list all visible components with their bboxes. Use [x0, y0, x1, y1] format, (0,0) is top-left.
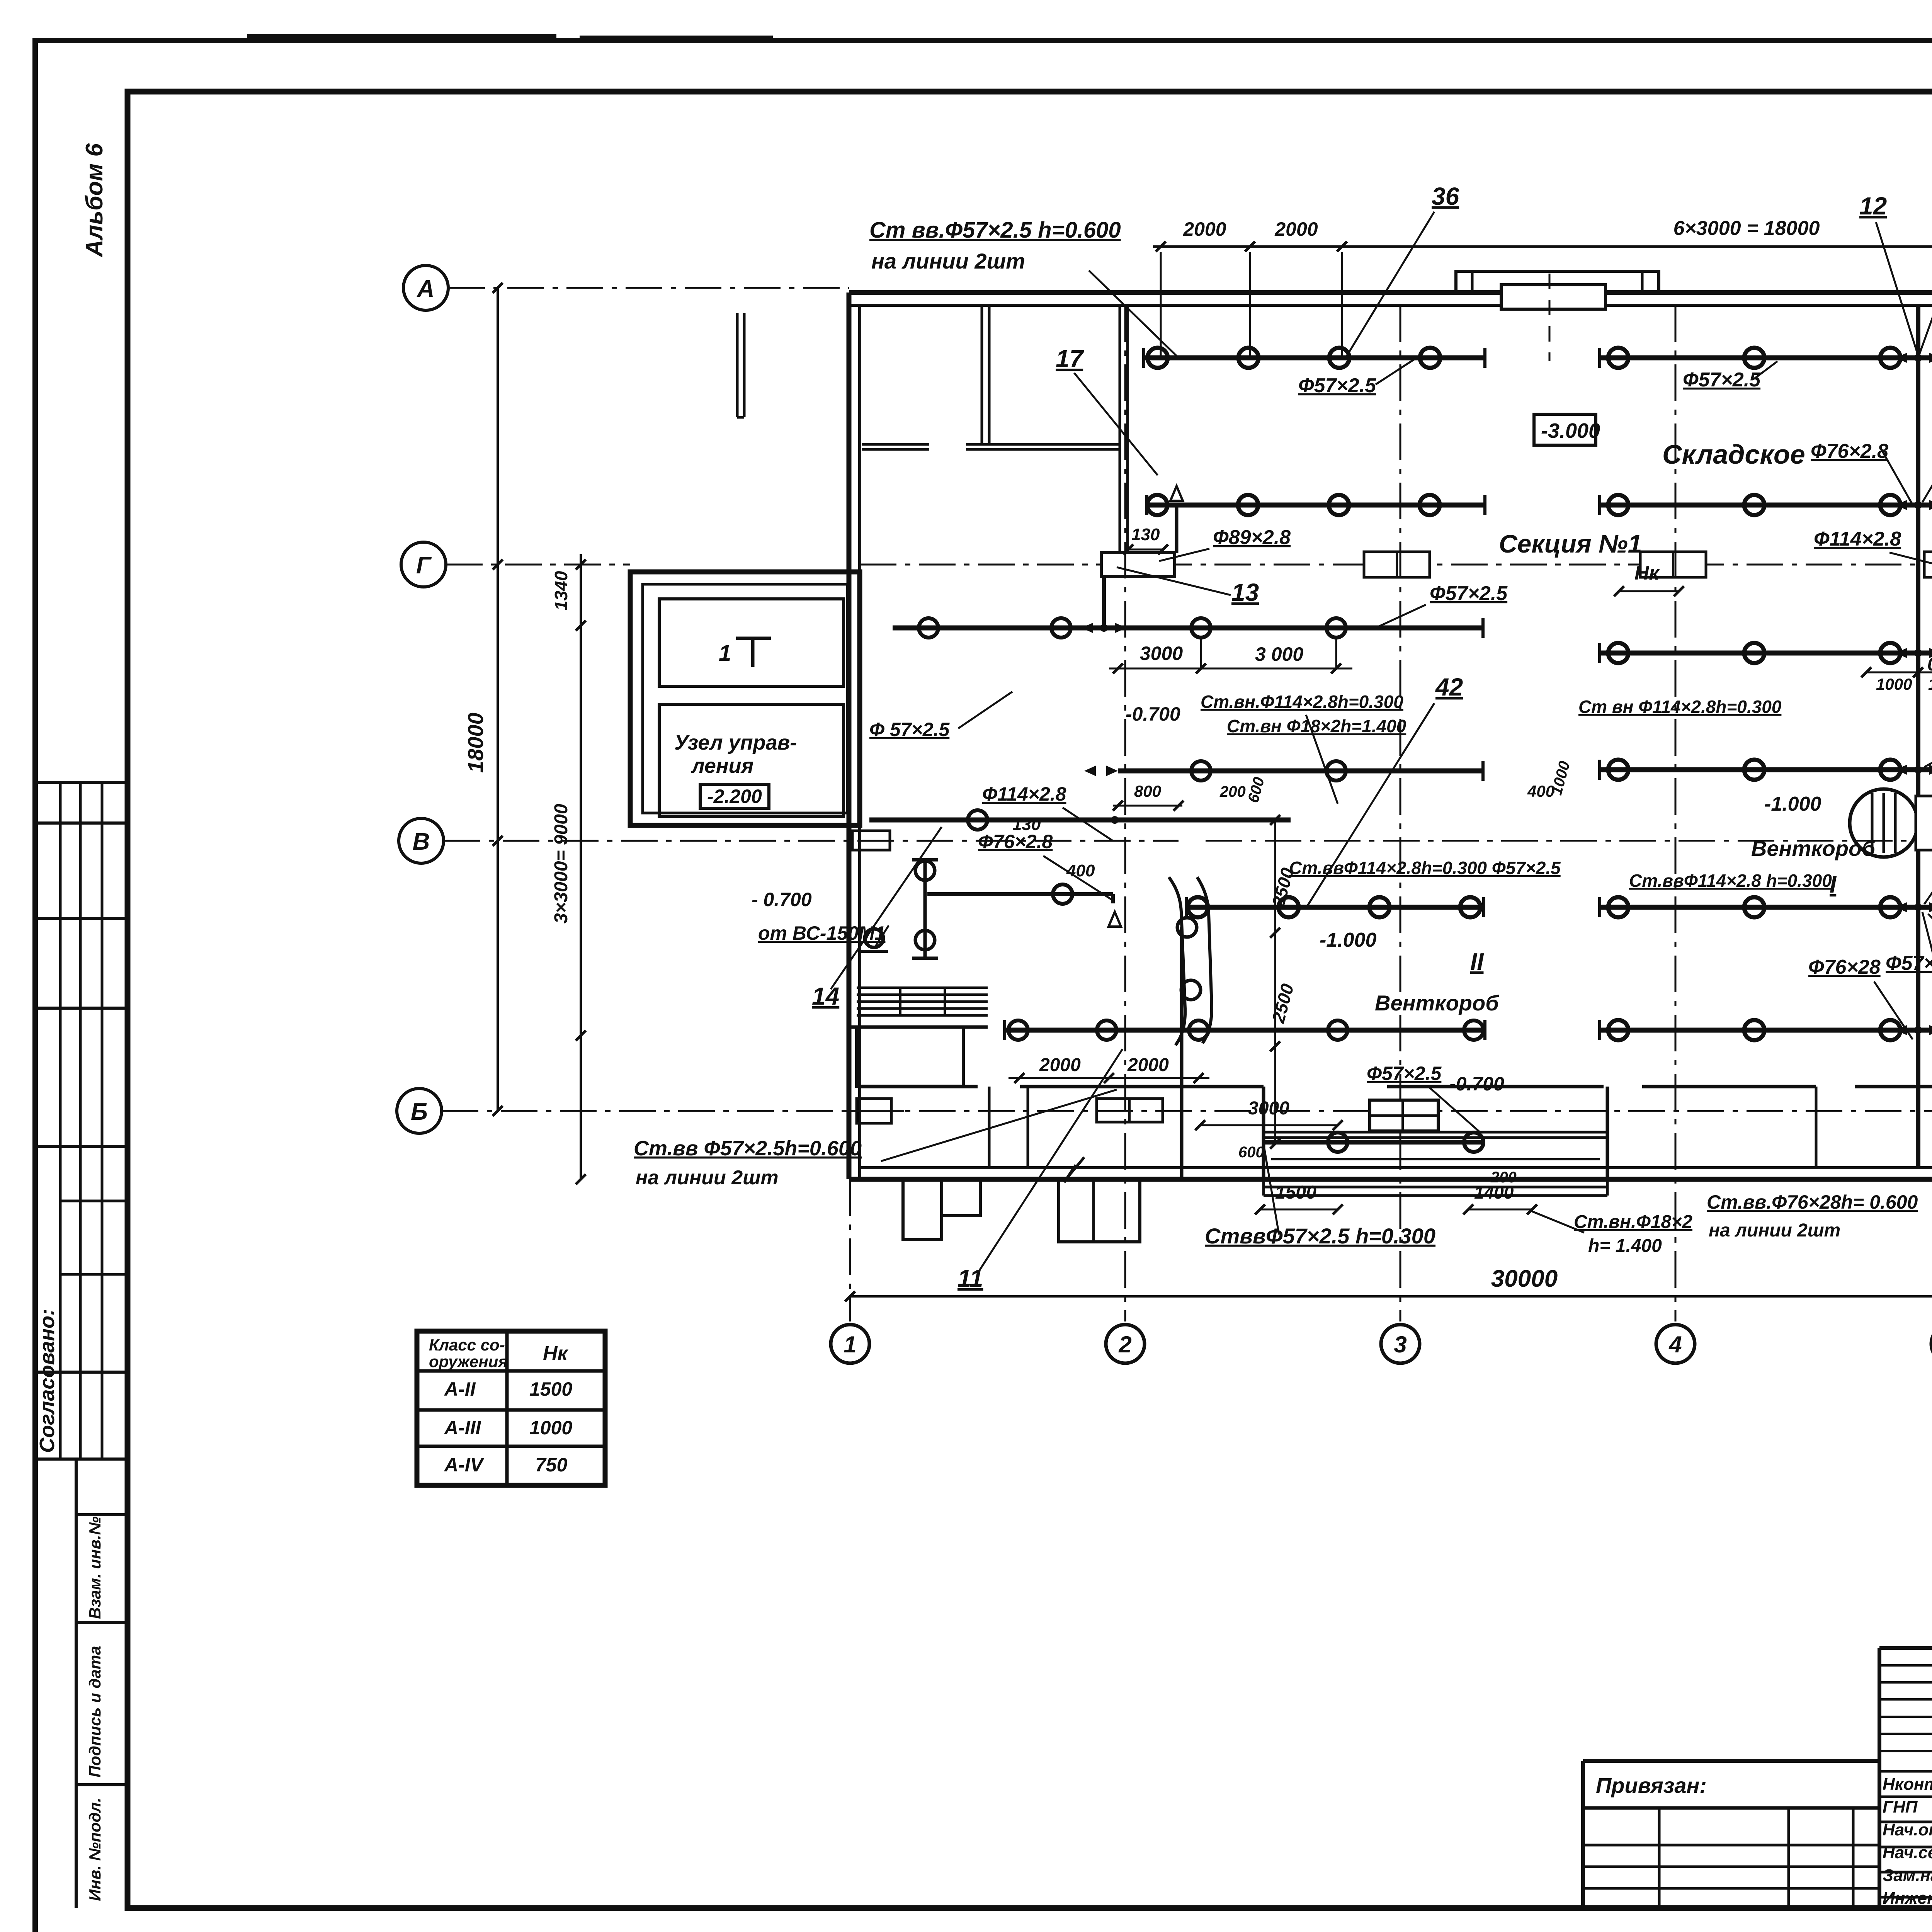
- svg-text:I: I: [1830, 871, 1837, 898]
- svg-text:200: 200: [1219, 783, 1246, 800]
- svg-text:6×3000 = 18000: 6×3000 = 18000: [1673, 217, 1820, 240]
- svg-text:-0.700: -0.700: [1126, 703, 1180, 725]
- svg-text:Ст.вв.Ф76×28h= 0.600: Ст.вв.Ф76×28h= 0.600: [1707, 1191, 1918, 1213]
- annex level mark -2.200: [700, 784, 769, 808]
- left riser pipe: [1102, 577, 1106, 628]
- ventkorob round symbol: [1850, 789, 1918, 857]
- svg-text:Ст.вн Ф18×2h=1.400: Ст.вн Ф18×2h=1.400: [1227, 716, 1406, 736]
- svg-text:ГНП: ГНП: [1883, 1798, 1918, 1816]
- exterior protrusion below wall center: [1059, 1179, 1140, 1242]
- svg-text:Ф57×2.5: Ф57×2.5: [1367, 1063, 1442, 1084]
- svg-text:Б: Б: [411, 1099, 428, 1125]
- top dimension line 2000/2000/6x3000: [1153, 245, 1932, 248]
- svg-text:Согласовано:: Согласовано:: [36, 1309, 59, 1453]
- svg-text:Ст вв.Ф57×2.5 h=0.600: Ст вв.Ф57×2.5 h=0.600: [869, 218, 1121, 243]
- axis A line: [448, 287, 849, 289]
- annex room rect 1: [659, 599, 844, 686]
- svg-text:13: 13: [1231, 578, 1259, 606]
- svg-text:3×3000= 9000: 3×3000= 9000: [551, 804, 571, 923]
- column circles 1-6: [831, 1325, 869, 1363]
- svg-text:Ст.ввФ114×2.8 h=0.300: Ст.ввФ114×2.8 h=0.300: [1629, 871, 1832, 891]
- svg-text:750: 750: [535, 1454, 568, 1476]
- svg-text:Ст.вн.Ф18×2: Ст.вн.Ф18×2: [1574, 1212, 1692, 1232]
- svg-text:Класс со-: Класс со-: [429, 1336, 505, 1354]
- ventkorob rect symbol: [1370, 1100, 1438, 1131]
- svg-text:36: 36: [1432, 182, 1459, 210]
- svg-text:Ф89×2.8: Ф89×2.8: [1213, 526, 1291, 549]
- svg-text:Нк: Нк: [543, 1342, 569, 1365]
- dim 1000 150 near riser: [1866, 672, 1932, 673]
- pipe row 7 right: [1600, 1028, 1932, 1033]
- svg-text:Ф57×2.5: Ф57×2.5: [1430, 582, 1508, 605]
- dim 1400/200 lower: [1468, 1209, 1532, 1211]
- svg-text:Ф57×25: Ф57×25: [1886, 952, 1932, 975]
- valve symbol at V axis input: [865, 929, 883, 947]
- svg-text:II: II: [1470, 949, 1484, 975]
- svg-text:Венткороб: Венткороб: [1751, 836, 1876, 861]
- svg-text:ления: ления: [690, 754, 753, 777]
- fixture on wall B center: [1097, 1099, 1163, 1122]
- scan artifact top edge: [247, 34, 556, 40]
- riser to G box: [1175, 505, 1179, 553]
- svg-text:В: В: [413, 828, 430, 855]
- svg-text:Зам.нач.от: Зам.нач.от: [1883, 1866, 1932, 1885]
- svg-text:3000: 3000: [1140, 643, 1183, 664]
- svg-text:130: 130: [1131, 525, 1160, 544]
- pipe row 1: [1144, 355, 1485, 361]
- exterior pocket top-left: [736, 313, 739, 417]
- pipe row 7 left: [1005, 1028, 1485, 1033]
- svg-text:Ф76×2.8: Ф76×2.8: [1811, 440, 1888, 463]
- svg-text:-1.000: -1.000: [1320, 929, 1377, 951]
- vertical pipe x2403: [923, 860, 927, 958]
- svg-text:Нач.отд: Нач.отд: [1883, 1820, 1932, 1839]
- pipe row on 2122 left: [869, 818, 1291, 823]
- svg-text:-2.200: -2.200: [707, 786, 762, 807]
- svg-text:3000: 3000: [1248, 1098, 1289, 1119]
- svg-text:42: 42: [1435, 673, 1463, 701]
- svg-text:Нач.сект: Нач.сект: [1883, 1843, 1932, 1862]
- svg-text:1: 1: [844, 1332, 856, 1357]
- privyazan box: [1583, 1759, 1879, 1763]
- dim 130 near axis G left: [1128, 549, 1163, 551]
- svg-text:1500: 1500: [1275, 1182, 1316, 1203]
- svg-text:12: 12: [1859, 192, 1887, 220]
- dim 1500 lower: [1260, 1209, 1338, 1211]
- exterior apron below wall: [1264, 1186, 1607, 1189]
- svg-text:Альбом 6: Альбом 6: [81, 143, 108, 258]
- pipe row 5 left: [1118, 769, 1483, 774]
- break mark on bottom wall: [1064, 1157, 1084, 1182]
- box on axis V at left wall: [852, 831, 890, 850]
- pipe row 4: [1600, 651, 1932, 656]
- interior partition walls top-left: [981, 305, 983, 446]
- svg-text:Подпись и дата: Подпись и дата: [86, 1646, 104, 1777]
- svg-text:СтввФ57×2.5 h=0.300: СтввФ57×2.5 h=0.300: [1205, 1224, 1435, 1248]
- axis G line: [446, 564, 630, 566]
- level mark -3.000: [1534, 414, 1596, 445]
- svg-text:1: 1: [719, 641, 731, 666]
- left lower label cells: [75, 1459, 78, 1908]
- left signature grid: [59, 782, 62, 1459]
- svg-text:h= 1.400: h= 1.400: [1588, 1236, 1662, 1256]
- svg-text:Взам. инв.№: Взам. инв.№: [86, 1516, 104, 1619]
- svg-text:Складское: Складское: [1662, 439, 1805, 469]
- building outer walls: [849, 290, 1932, 295]
- svg-text:14: 14: [812, 982, 839, 1010]
- main riser pipe: [1916, 305, 1920, 1168]
- svg-text:18000: 18000: [463, 713, 488, 773]
- svg-text:Ст.вв Ф57×2.5h=0.600: Ст.вв Ф57×2.5h=0.600: [634, 1137, 862, 1160]
- roof monitor bump: [1456, 271, 1659, 293]
- annex room rect 2: [659, 704, 844, 816]
- bottom-left interior stair: [857, 986, 988, 989]
- exterior stubs below bottom wall: [903, 1179, 942, 1240]
- svg-text:2000: 2000: [1274, 218, 1318, 240]
- bottom dimension 30000: [850, 1295, 1932, 1298]
- svg-text:1000: 1000: [529, 1417, 572, 1439]
- svg-text:оружения: оружения: [429, 1352, 508, 1371]
- column axis lines: [1124, 305, 1126, 1321]
- svg-text:3 000: 3 000: [1255, 643, 1303, 665]
- svg-text:150: 150: [1928, 675, 1932, 693]
- svg-text:Ст.ввФ114×2.8h=0.300 Ф57×2.5: Ст.ввФ114×2.8h=0.300 Ф57×2.5: [1289, 858, 1561, 878]
- svg-text:А-III: А-III: [444, 1417, 481, 1439]
- dim 3000 3000 below row3: [1109, 668, 1352, 670]
- svg-text:2000: 2000: [1039, 1055, 1081, 1075]
- bottom strip partitions: [1180, 927, 1184, 1179]
- svg-text:Г: Г: [416, 552, 432, 579]
- left dimension 18000: [497, 288, 499, 1111]
- svg-text:4: 4: [1668, 1332, 1682, 1357]
- svg-text:Привязан:: Привязан:: [1596, 1773, 1707, 1798]
- pipe row 2: [1147, 503, 1485, 508]
- svg-text:2000: 2000: [1183, 218, 1226, 240]
- svg-text:Инженер: Инженер: [1883, 1889, 1932, 1908]
- floor trench lines: [1264, 1131, 1607, 1134]
- svg-text:0.700: 0.700: [1927, 654, 1932, 675]
- svg-text:на линии 2шт: на линии 2шт: [636, 1167, 779, 1189]
- vent units on axis G: [1364, 552, 1430, 577]
- svg-text:600: 600: [1238, 1144, 1264, 1161]
- svg-text:Венткороб: Венткороб: [1375, 991, 1499, 1015]
- svg-text:-1.000: -1.000: [1764, 793, 1821, 815]
- svg-text:- 0.700: - 0.700: [752, 889, 812, 910]
- pipe row 3: [893, 626, 1483, 631]
- left pipe jog row: [927, 892, 1113, 896]
- pipe row 6: [1186, 905, 1484, 910]
- svg-text:17: 17: [1056, 345, 1085, 372]
- pipe row 8 short: [1264, 1140, 1484, 1145]
- dim 2000 2000 lower left: [1009, 1077, 1209, 1079]
- partitions in bottom strip left: [988, 1087, 991, 1168]
- vent box on axis G at left wall: [1101, 553, 1175, 577]
- svg-text:2: 2: [1118, 1332, 1131, 1357]
- svg-text:200: 200: [1490, 1169, 1517, 1186]
- class table: [417, 1331, 605, 1485]
- svg-text:Узел управ-: Узел управ-: [674, 731, 797, 754]
- svg-text:1340: 1340: [551, 571, 571, 611]
- dim 3000 lower: [1200, 1124, 1338, 1126]
- axis V circle: [399, 818, 444, 863]
- svg-text:Нконтр: Нконтр: [1883, 1775, 1932, 1794]
- fixture on wall B left: [857, 1099, 891, 1123]
- svg-text:11: 11: [957, 1264, 983, 1292]
- svg-text:30000: 30000: [1491, 1265, 1558, 1292]
- svg-text:Ф114×2.8: Ф114×2.8: [982, 783, 1066, 805]
- axis A circle: [403, 265, 448, 310]
- svg-text:-0.700: -0.700: [1449, 1073, 1504, 1095]
- svg-text:Инв. №подл.: Инв. №подл.: [86, 1798, 104, 1901]
- svg-text:Ф57×2.5: Ф57×2.5: [1683, 369, 1761, 391]
- svg-text:А: А: [417, 276, 435, 302]
- svg-text:Нк: Нк: [1634, 562, 1660, 584]
- axis G circle: [401, 542, 446, 587]
- axis V line: [444, 840, 1179, 842]
- svg-text:1000: 1000: [1876, 675, 1912, 693]
- svg-text:Ф114×2.8: Ф114×2.8: [1814, 528, 1901, 550]
- annex uzel upravleniya outer walls: [630, 572, 860, 825]
- bottom-left room: [857, 1027, 963, 1086]
- svg-text:А-II: А-II: [444, 1378, 476, 1400]
- left dimension 1340 3x3000=9000: [580, 554, 582, 1179]
- vertical dim 2500 x2: [1274, 820, 1276, 1144]
- svg-text:400: 400: [1066, 861, 1095, 880]
- svg-text:800: 800: [1134, 782, 1161, 800]
- axis B circle: [397, 1088, 442, 1133]
- svg-text:3: 3: [1394, 1332, 1406, 1357]
- svg-text:1500: 1500: [529, 1378, 572, 1400]
- title block grid: [1879, 1646, 1932, 1650]
- svg-text:Ф57×2.5: Ф57×2.5: [1298, 374, 1376, 397]
- svg-text:Ф76×28: Ф76×28: [1808, 956, 1881, 978]
- pipe row 5 right: [1600, 767, 1932, 772]
- svg-text:Ст.вн.Ф114×2.8h=0.300: Ст.вн.Ф114×2.8h=0.300: [1201, 692, 1403, 712]
- svg-text:от ВС-150М1: от ВС-150М1: [758, 922, 885, 944]
- svg-text:Секция №1: Секция №1: [1499, 529, 1642, 558]
- svg-text:Ф76×2.8: Ф76×2.8: [978, 831, 1053, 852]
- svg-text:-3.000: -3.000: [1541, 419, 1600, 442]
- svg-text:А-IV: А-IV: [444, 1454, 485, 1476]
- dim 800 left: [1113, 805, 1182, 807]
- svg-text:130: 130: [1012, 815, 1041, 834]
- svg-text:Ф 57×2.5: Ф 57×2.5: [869, 719, 950, 740]
- axis B line: [442, 1110, 849, 1112]
- svg-text:на линии 2шт: на линии 2шт: [871, 249, 1025, 273]
- curved duct vertical: [1169, 877, 1185, 1045]
- svg-text:Ст вн Ф114×2.8h=0.300: Ст вн Ф114×2.8h=0.300: [1578, 697, 1782, 717]
- dim Nk near axis G: [1619, 590, 1679, 592]
- wall on axis B with door gaps: [860, 1085, 978, 1088]
- svg-text:на линии 2шт: на линии 2шт: [1709, 1220, 1840, 1241]
- svg-text:2000: 2000: [1127, 1055, 1169, 1075]
